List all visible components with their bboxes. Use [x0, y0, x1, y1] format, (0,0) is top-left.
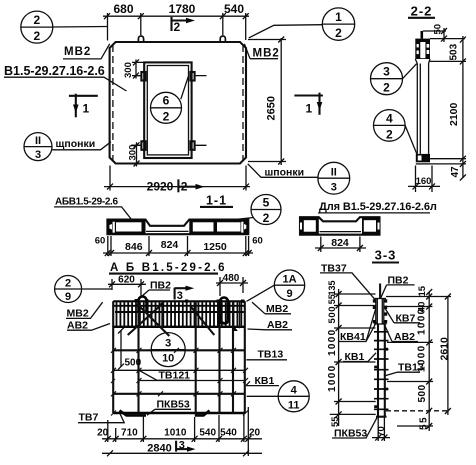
bottom dimension 2920	[104, 166, 250, 194]
svg-text:824: 824	[161, 239, 179, 251]
tab leader lines	[131, 76, 207, 146]
label PV2 3-3	[381, 274, 415, 298]
svg-text:55: 55	[327, 294, 337, 304]
callout II/3 with shponki left	[24, 133, 111, 161]
loop right with hook	[220, 298, 228, 325]
right dim chain 3-3	[386, 285, 451, 431]
bottom dims row 20 710 1010 540 540 20	[97, 407, 262, 456]
svg-text:5: 5	[263, 196, 270, 210]
label Dlya B1.5-29.27.16-2.6l	[318, 201, 437, 213]
svg-text:500: 500	[327, 306, 338, 324]
small section left block	[300, 217, 319, 235]
label B1.5-29.27.16-2.6	[4, 64, 127, 91]
label AV2 cage-left	[67, 320, 110, 332]
svg-text:2: 2	[174, 20, 181, 34]
title A B V1.5-29-2.6	[109, 262, 227, 274]
svg-text:20: 20	[97, 428, 109, 439]
svg-text:2: 2	[263, 211, 270, 225]
diagonal brace right	[191, 307, 214, 335]
svg-text:2: 2	[181, 179, 188, 193]
left end key	[107, 220, 112, 235]
svg-text:60: 60	[95, 236, 106, 247]
svg-text:2920: 2920	[147, 180, 174, 194]
callout circle 2/2 top-left	[21, 11, 108, 43]
label TV37	[320, 263, 376, 301]
svg-text:4: 4	[291, 384, 298, 396]
svg-text:1А: 1А	[282, 273, 296, 285]
dense mesh verticals	[117, 302, 242, 327]
corner piece PKV53 right	[195, 411, 210, 416]
svg-text:50: 50	[433, 24, 444, 35]
ladder weld dots	[374, 348, 388, 408]
svg-text:1-1: 1-1	[206, 193, 227, 207]
svg-text:20: 20	[249, 428, 261, 439]
svg-text:ПКВ53: ПКВ53	[157, 398, 190, 410]
svg-text:710: 710	[121, 428, 138, 439]
svg-text:500: 500	[125, 358, 142, 369]
cage horizontal bars	[113, 349, 245, 351]
top stem	[379, 284, 381, 299]
svg-text:15: 15	[417, 285, 428, 296]
embed tab top-left	[141, 72, 145, 81]
svg-text:9: 9	[65, 291, 71, 303]
weld dots top chord	[135, 299, 245, 306]
svg-text:2: 2	[335, 26, 342, 40]
svg-text:500: 500	[417, 384, 428, 402]
label shponki right with II/3	[248, 162, 350, 194]
svg-text:2650: 2650	[266, 96, 278, 120]
dimension 300 bottom	[128, 142, 145, 166]
svg-text:3: 3	[177, 290, 183, 302]
callout circle 3/2	[371, 63, 417, 95]
svg-text:ТВ121: ТВ121	[159, 369, 191, 381]
embed tab bottom-left	[141, 141, 145, 150]
title 3-3	[372, 248, 399, 263]
section mark 1 left	[69, 94, 98, 118]
panel dashed line left	[112, 45, 114, 161]
svg-text:1: 1	[306, 102, 313, 116]
cage right edge bar	[244, 301, 246, 413]
bottom block	[416, 154, 430, 164]
callout circle 4/2	[374, 110, 417, 154]
loop stem	[420, 31, 423, 39]
title 2-2	[408, 4, 435, 19]
svg-text:3: 3	[35, 149, 41, 161]
small section body	[300, 217, 380, 235]
label MB2 left	[63, 44, 110, 59]
cage vertical bar 239.5	[239, 301, 241, 328]
panel web column	[417, 64, 428, 154]
cage bottom chord	[113, 412, 245, 415]
svg-text:2: 2	[386, 127, 393, 141]
dimension 50	[423, 24, 447, 42]
opening outer rect	[144, 62, 191, 158]
svg-text:щпонки: щпонки	[56, 138, 96, 150]
label TV121	[139, 369, 190, 381]
end slits 1-1	[113, 222, 244, 233]
svg-text:II: II	[331, 166, 337, 178]
dimension 300 top	[123, 59, 144, 78]
svg-text:2: 2	[383, 81, 390, 95]
label MB2 right	[244, 44, 279, 60]
callout circle 6/2	[151, 77, 189, 124]
left solid block	[112, 220, 146, 235]
svg-text:2840: 2840	[147, 442, 171, 454]
embed tab bottom-right	[190, 141, 194, 150]
svg-text:60: 60	[252, 236, 263, 247]
label PKV53 cage	[147, 398, 191, 415]
title 1-1	[200, 193, 233, 207]
svg-text:620: 620	[118, 274, 135, 285]
svg-text:В1.5-29.27.16-2.6: В1.5-29.27.16-2.6	[4, 64, 105, 78]
svg-text:Для В1.5-29.27.16-2.6л: Для В1.5-29.27.16-2.6л	[319, 201, 437, 213]
svg-text:55: 55	[418, 416, 429, 430]
svg-text:1010: 1010	[164, 428, 187, 439]
callout circle 1A/9	[247, 270, 305, 301]
svg-text:70: 70	[376, 426, 387, 437]
svg-text:1000: 1000	[416, 308, 427, 335]
top dimension line 680 1780 540	[103, 2, 249, 40]
label MV2 cage-left	[66, 302, 103, 319]
label KV41	[339, 309, 377, 343]
label ABV1.5-29-2.6	[54, 197, 134, 223]
svg-text:540: 540	[220, 428, 237, 439]
label TV13 3-3	[384, 361, 424, 376]
cage vertical bar 232.5	[232, 301, 234, 413]
label MV2 cage-right	[252, 302, 291, 315]
label KV7	[385, 309, 420, 325]
svg-text:160: 160	[416, 176, 432, 187]
svg-text:300: 300	[128, 145, 139, 161]
label AV2 3-3	[383, 322, 418, 342]
ladder bottom	[376, 416, 387, 418]
svg-text:2: 2	[33, 29, 40, 43]
svg-text:3: 3	[165, 338, 171, 350]
dimension 2650	[248, 37, 286, 166]
X brace	[128, 304, 170, 336]
svg-text:1000: 1000	[327, 365, 338, 392]
cage left edge bar	[112, 301, 114, 413]
cage vertical bar PV2	[137, 301, 139, 413]
panel dashed line right	[242, 45, 244, 161]
callout circle 3/10	[151, 333, 185, 367]
svg-text:846: 846	[125, 241, 143, 253]
label TV13	[246, 348, 287, 360]
section mark 3 bottom	[176, 439, 195, 451]
label KV1 3-3	[343, 351, 376, 363]
right dim chain 503/2100/47	[430, 36, 466, 181]
svg-text:А Б В1.5-29-2.6: А Б В1.5-29-2.6	[110, 262, 227, 274]
lifting loop left	[138, 36, 143, 43]
dims 60 846 824 1250 60	[95, 236, 263, 257]
svg-text:1000: 1000	[327, 329, 338, 356]
left dim chain 3-3	[327, 280, 376, 427]
section mark 2 top	[172, 17, 196, 34]
svg-text:3: 3	[179, 439, 185, 451]
ladder rungs	[374, 332, 389, 410]
section mark 1 right	[294, 93, 323, 116]
top mortise block	[415, 39, 430, 59]
callout circle 1/2	[249, 8, 355, 40]
svg-text:II: II	[35, 135, 41, 147]
svg-text:2610: 2610	[438, 337, 450, 361]
dimension 824 small	[315, 237, 366, 253]
svg-text:540: 540	[199, 428, 216, 439]
svg-text:1: 1	[83, 102, 90, 116]
opening inner rect	[147, 66, 188, 155]
corner piece PKV53 left	[120, 411, 147, 416]
cage vertical bar mid-left	[161, 301, 163, 328]
svg-text:4: 4	[386, 111, 393, 125]
label PKV53 3-3	[332, 417, 378, 440]
section mark 3 top	[175, 286, 195, 302]
panel outline	[110, 42, 246, 164]
right end key	[244, 220, 248, 235]
svg-text:824: 824	[331, 237, 349, 249]
svg-text:2: 2	[33, 13, 40, 27]
loop left	[139, 297, 147, 313]
embed tab top-right	[190, 72, 194, 81]
svg-text:1780: 1780	[169, 2, 196, 16]
svg-text:55: 55	[330, 416, 341, 427]
label AV2 cage-right	[248, 319, 293, 331]
ladder bar	[378, 324, 385, 417]
cage top chord	[113, 300, 245, 302]
corner triangle mark	[232, 326, 238, 331]
transition to web	[415, 59, 430, 64]
svg-text:3: 3	[383, 65, 390, 79]
svg-text:2100: 2100	[448, 102, 460, 126]
total dim 2840	[102, 442, 262, 456]
callout circle 5/2	[196, 195, 281, 226]
svg-text:47: 47	[450, 166, 461, 178]
cage mesh band bottom	[113, 326, 245, 328]
svg-text:503: 503	[449, 43, 460, 60]
svg-text:135: 135	[327, 280, 337, 295]
label TV7	[78, 411, 124, 423]
svg-text:680: 680	[113, 2, 133, 16]
svg-text:АБВ1.5-29-2.6: АБВ1.5-29-2.6	[55, 197, 118, 208]
svg-text:ТВ7: ТВ7	[79, 411, 99, 423]
cage mesh band bars	[113, 306, 245, 312]
svg-text:ТВ13: ТВ13	[258, 348, 284, 360]
label PV2 top	[140, 279, 171, 298]
weld blobs assembly	[373, 299, 387, 323]
lifting loop right	[220, 36, 225, 43]
top assembly bars	[374, 299, 387, 325]
svg-text:10: 10	[162, 353, 174, 365]
svg-text:МВ2: МВ2	[67, 308, 89, 320]
cage vertical bar 196	[195, 301, 197, 413]
dimension 500 cage	[118, 328, 142, 370]
svg-text:МВ2: МВ2	[253, 48, 280, 60]
dimension 160	[408, 166, 440, 193]
svg-text:540: 540	[224, 2, 244, 16]
svg-text:1250: 1250	[203, 241, 227, 253]
dimension 70 bottom	[372, 417, 390, 441]
small section right block	[362, 217, 380, 235]
section 1-1 body outline	[107, 220, 248, 235]
svg-text:МВ2: МВ2	[64, 46, 91, 58]
label KV1 cage	[246, 375, 279, 387]
svg-text:480: 480	[223, 273, 240, 284]
svg-text:3-3: 3-3	[375, 248, 397, 263]
svg-text:3: 3	[331, 181, 337, 193]
svg-text:2: 2	[65, 277, 71, 289]
weld hatch ticks	[111, 348, 248, 416]
callout circle 4/11	[247, 381, 310, 412]
svg-text:1: 1	[335, 10, 342, 24]
svg-text:2: 2	[163, 110, 170, 124]
section mark 2 bottom	[178, 179, 204, 193]
cage vertical bar 213	[218, 301, 220, 413]
dimension 620	[108, 274, 146, 296]
svg-text:9: 9	[286, 288, 292, 300]
callout circle 2/9	[55, 276, 112, 303]
svg-text:6: 6	[163, 94, 170, 108]
dimension 480	[216, 273, 248, 296]
svg-text:11: 11	[288, 399, 300, 411]
right solid block	[189, 220, 244, 235]
svg-text:300: 300	[123, 62, 134, 78]
svg-text:1000: 1000	[416, 345, 427, 372]
far dim 2610	[438, 294, 451, 416]
svg-text:2-2: 2-2	[411, 4, 433, 19]
